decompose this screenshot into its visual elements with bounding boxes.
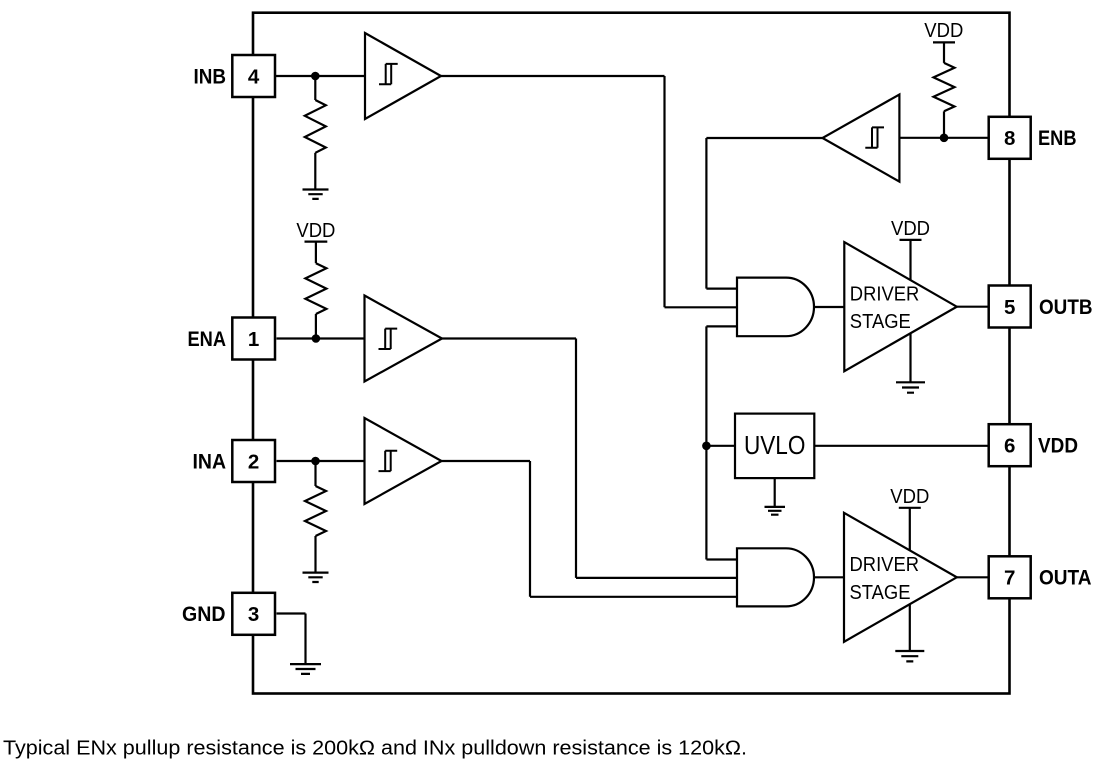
- wire INA buffer output horizontal: [442, 460, 531, 462]
- svg-text:4: 4: [248, 65, 260, 88]
- hysteresis symbol INA buffer: [379, 451, 398, 471]
- wire INB pulldown resistor to ground: [314, 153, 316, 190]
- junction node ENB/pullup: [940, 134, 949, 143]
- svg-text:VDD: VDD: [891, 218, 930, 240]
- svg-text:VDD: VDD: [924, 20, 963, 42]
- svg-text:1: 1: [248, 328, 259, 351]
- ground (UVLO): [765, 507, 786, 515]
- wire INA pin2 to Schmitt buffer input: [277, 460, 365, 462]
- wire INA node to pulldown resistor: [314, 461, 316, 486]
- Schmitt buffer ENB (left-pointing triangle): [823, 95, 900, 182]
- svg-text:DRIVER: DRIVER: [850, 284, 920, 306]
- svg-text:2: 2: [248, 450, 259, 473]
- svg-text:STAGE: STAGE: [850, 582, 911, 604]
- ground (GND pin): [290, 664, 321, 674]
- svg-text:OUTB: OUTB: [1039, 296, 1093, 319]
- svg-text:INB: INB: [194, 65, 227, 88]
- wire ENB vertical run down: [705, 138, 707, 289]
- wire INB vertical run down: [663, 76, 665, 307]
- wire UVLO vertical net: [705, 326, 707, 559]
- junction node INB/pulldown: [311, 72, 320, 81]
- hysteresis symbol INB buffer: [379, 64, 398, 84]
- wire INA vertical run down: [529, 461, 531, 597]
- wire ENA into AND gate A middle input: [576, 577, 737, 579]
- ground (driver stage B): [896, 382, 925, 392]
- wire VDD bar to ENB pullup resistor: [943, 42, 945, 63]
- wire ENA buffer output horizontal: [442, 337, 576, 339]
- wire UVLO block to ground stub: [774, 478, 776, 507]
- VDD supply bar (driver stage A): [899, 507, 921, 509]
- driver stage B (triangle): [844, 242, 957, 371]
- wire driver stage A output to OUTA pin7: [957, 576, 989, 578]
- AND gate A (3-input): [737, 548, 814, 606]
- wire ENB buffer output to vertical run: [706, 137, 822, 139]
- hysteresis symbol ENA buffer: [379, 329, 398, 349]
- svg-text:DRIVER: DRIVER: [850, 554, 920, 576]
- wire INA into AND gate A bottom input: [530, 596, 737, 598]
- wire ENB pin8 to Schmitt buffer input: [899, 137, 988, 139]
- wire ENB into AND gate B top input: [706, 288, 737, 290]
- VDD supply bar (ENB pullup): [933, 41, 955, 43]
- wire INB buffer output to vertical run: [441, 75, 665, 77]
- svg-text:STAGE: STAGE: [850, 311, 911, 333]
- wire UVLO node to UVLO block: [706, 445, 735, 447]
- svg-text:VDD: VDD: [890, 486, 929, 508]
- wire ENA vertical run down: [575, 339, 577, 578]
- pin 3 box (GND): [232, 593, 275, 635]
- IC boundary box: [253, 13, 1010, 694]
- junction node ENA/pullup: [312, 334, 321, 343]
- resistor ENB pullup (200k): [934, 63, 955, 111]
- pin 4 box (INB): [232, 55, 275, 97]
- svg-text:VDD: VDD: [1038, 435, 1078, 458]
- Schmitt buffer INA (triangle): [365, 418, 442, 504]
- Schmitt buffer INB (triangle): [365, 33, 441, 119]
- wire ENB pullup resistor to node: [943, 111, 945, 138]
- wire driver stage A to ground stub: [909, 604, 911, 651]
- svg-text:GND: GND: [182, 603, 226, 626]
- wire INB node to pulldown resistor: [314, 76, 316, 100]
- wire AND gate A output to driver stage A: [814, 576, 844, 578]
- wire ENA pin1 to Schmitt buffer input: [277, 337, 365, 339]
- svg-text:8: 8: [1004, 127, 1015, 150]
- svg-text:5: 5: [1004, 296, 1015, 319]
- wire GND pin3 stub right: [277, 612, 306, 614]
- pin 1 box (ENA): [232, 318, 275, 360]
- pin 6 box (VDD): [989, 424, 1031, 466]
- resistor INB pulldown (120k): [305, 100, 326, 153]
- junction node UVLO net: [702, 442, 711, 451]
- wire VDD stub into driver stage B: [909, 240, 911, 280]
- svg-text:6: 6: [1004, 435, 1015, 458]
- wire UVLO net into AND gate A top input: [706, 558, 737, 560]
- VDD supply bar (driver stage B): [900, 239, 922, 241]
- wire AND gate B bottom input stub: [706, 325, 737, 327]
- wire INB into AND gate B middle input: [665, 306, 738, 308]
- svg-text:Typical ENx pullup resistance: Typical ENx pullup resistance is 200kΩ a…: [3, 738, 747, 760]
- pin 5 box (OUTB): [989, 286, 1031, 328]
- wire GND stub down to ground: [304, 614, 306, 665]
- resistor INA pulldown (120k): [305, 486, 326, 536]
- ground (INA pulldown): [303, 573, 329, 582]
- wire ENA pullup resistor to node: [315, 314, 317, 339]
- wire driver stage B to ground stub: [909, 333, 911, 382]
- wire INB pin4 to Schmitt buffer input: [275, 75, 366, 77]
- driver stage A (triangle): [844, 513, 957, 642]
- pin 8 box (ENB): [989, 117, 1031, 159]
- VDD supply bar (ENA pullup): [305, 241, 328, 243]
- wire AND gate B output to driver stage B: [814, 306, 844, 308]
- junction node INA/pulldown: [311, 457, 320, 466]
- ground (driver stage A): [895, 651, 924, 661]
- svg-text:3: 3: [248, 603, 259, 626]
- hysteresis symbol ENB buffer: [865, 127, 884, 147]
- Schmitt buffer ENA (triangle): [365, 296, 443, 382]
- wire UVLO block to VDD pin6: [814, 445, 988, 447]
- svg-text:ENB: ENB: [1038, 127, 1077, 150]
- AND gate B (3-input): [737, 278, 814, 337]
- svg-text:UVLO: UVLO: [744, 430, 806, 460]
- pin 7 box (OUTA): [989, 556, 1031, 598]
- ground (INB pulldown): [303, 190, 329, 199]
- resistor ENA pullup (200k): [305, 263, 326, 314]
- wire driver stage B output to OUTB pin5: [957, 306, 989, 308]
- wire VDD bar to ENA pullup resistor: [315, 242, 317, 264]
- svg-text:INA: INA: [193, 450, 227, 473]
- svg-text:ENA: ENA: [188, 328, 227, 351]
- svg-text:7: 7: [1004, 567, 1015, 590]
- wire VDD stub into driver stage A: [909, 508, 911, 551]
- svg-text:OUTA: OUTA: [1039, 567, 1092, 590]
- pin 2 box (INA): [232, 440, 275, 482]
- svg-text:VDD: VDD: [296, 220, 335, 242]
- UVLO block: [735, 414, 814, 479]
- wire INA pulldown resistor to ground: [314, 536, 316, 573]
